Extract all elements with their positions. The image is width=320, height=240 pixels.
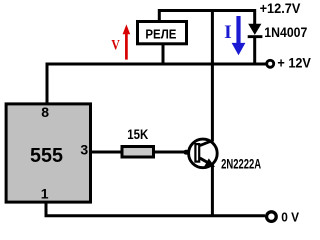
wire +12V rail with left corner down to 555 pin 8 [47, 64, 267, 103]
svg-text:0 V: 0 V [281, 211, 299, 225]
transistor Q1 base bar [195, 144, 199, 162]
svg-text:2N2222A: 2N2222A [221, 155, 261, 171]
wire top rail with relay and diode stubs [159, 11, 254, 25]
wire pin 3 to resistor [91, 151, 122, 154]
diode D1 cathode bar [248, 35, 263, 38]
IC U1 555 timer body [6, 104, 90, 202]
svg-text:I: I [224, 22, 232, 43]
transistor Q1 circle [189, 139, 218, 168]
terminal +12V open circle [267, 60, 274, 67]
transistor Q1 emitter lead with arrow [200, 158, 215, 167]
svg-text:555: 555 [30, 145, 63, 167]
svg-text:+ 12V: + 12V [277, 55, 311, 71]
wire pin 1 down and ground rail [46, 202, 265, 216]
svg-text:РЕЛЕ: РЕЛЕ [145, 27, 176, 42]
wire collector vertical from top rail to transistor [211, 11, 214, 142]
wire relay bottom stub to +12V rail [162, 44, 165, 65]
svg-text:8: 8 [41, 104, 49, 120]
terminal 0V open circle [267, 212, 277, 222]
junction blob at base [183, 150, 189, 155]
svg-text:1: 1 [41, 186, 49, 202]
svg-text:3: 3 [80, 141, 88, 157]
transistor Q1 collector lead [200, 140, 213, 145]
voltage arrow V (red) [123, 24, 131, 59]
resistor R1 body [122, 147, 154, 158]
svg-text:15K: 15K [127, 127, 148, 142]
diode D1 1N4007 triangle [248, 24, 261, 35]
wire emitter vertical to ground rail [211, 165, 214, 217]
wire diode cathode stub to +12V rail [253, 37, 256, 66]
wire resistor to transistor base [154, 151, 189, 154]
svg-text:1N4007: 1N4007 [264, 24, 307, 40]
relay K1 box [138, 22, 187, 44]
svg-text:V: V [111, 37, 120, 53]
svg-text:+12.7V: +12.7V [260, 0, 301, 16]
current arrow I (blue) [232, 16, 246, 55]
